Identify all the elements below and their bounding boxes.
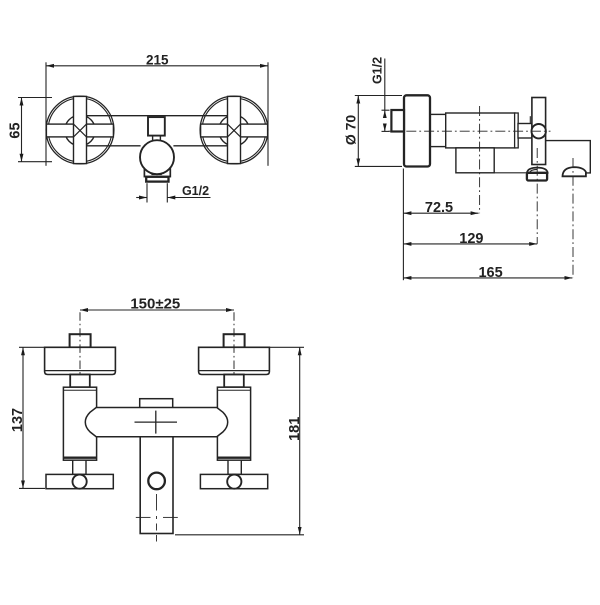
svg-text:165: 165 <box>478 265 502 281</box>
svg-text:137: 137 <box>10 408 26 432</box>
svg-text:129: 129 <box>459 231 483 247</box>
svg-text:G1/2: G1/2 <box>370 57 384 84</box>
svg-text:G1/2: G1/2 <box>182 184 209 198</box>
svg-text:215: 215 <box>146 52 169 67</box>
svg-text:Ø 70: Ø 70 <box>343 115 359 146</box>
svg-text:65: 65 <box>8 122 24 138</box>
svg-text:181: 181 <box>287 417 303 441</box>
svg-text:150±25: 150±25 <box>130 295 180 312</box>
svg-text:72.5: 72.5 <box>425 200 453 216</box>
